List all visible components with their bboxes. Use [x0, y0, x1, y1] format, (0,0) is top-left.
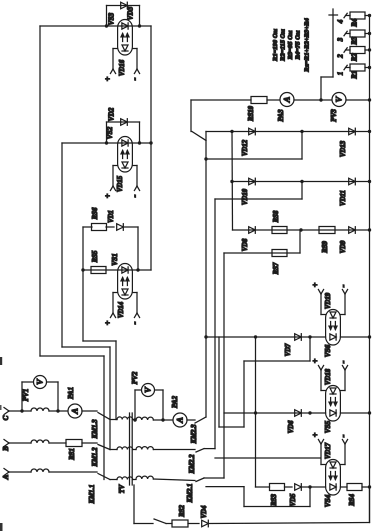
- svg-text:-: -: [338, 285, 348, 288]
- svg-text:TV: TV: [119, 484, 126, 493]
- svg-text:VD3: VD3: [127, 6, 135, 20]
- svg-text:PV1: PV1: [22, 389, 30, 402]
- svg-text:R2=115 Ом: R2=115 Ом: [280, 29, 287, 62]
- svg-text:-: -: [130, 322, 140, 325]
- svg-text:RS2: RS2: [179, 505, 186, 518]
- svg-text:+: +: [104, 320, 113, 325]
- svg-text:PA1: PA1: [67, 387, 75, 399]
- svg-text:3: 3: [337, 37, 345, 42]
- svg-text:RS1: RS1: [69, 448, 76, 461]
- svg-text:VD9: VD9: [340, 240, 347, 253]
- svg-text:+: +: [311, 358, 320, 363]
- svg-text:R4=75 Ом: R4=75 Ом: [295, 30, 302, 60]
- svg-text:RS6: RS6: [92, 207, 99, 220]
- svg-text:R2: R2: [350, 53, 358, 63]
- svg-text:KM2.1: KM2.1: [187, 483, 194, 503]
- svg-text:VS2: VS2: [106, 126, 114, 139]
- svg-text:PA2: PA2: [171, 395, 179, 408]
- svg-text:RS10: RS10: [248, 105, 255, 122]
- svg-text:VS4: VS4: [324, 494, 332, 507]
- svg-text:RS7: RS7: [273, 262, 280, 275]
- svg-text:A: A: [282, 96, 292, 103]
- svg-text:KM1.2: KM1.2: [92, 447, 99, 468]
- svg-text:VS6: VS6: [324, 344, 332, 357]
- svg-text:VS1: VS1: [111, 253, 119, 265]
- svg-text:VD10: VD10: [242, 188, 249, 205]
- svg-text:RS5: RS5: [92, 250, 99, 263]
- svg-text:A: A: [70, 408, 80, 415]
- svg-text:VD1: VD1: [108, 210, 115, 223]
- svg-text:VD5: VD5: [290, 493, 297, 506]
- svg-text:KM1.1: KM1.1: [89, 484, 96, 504]
- svg-text:PV3: PV3: [330, 109, 338, 122]
- svg-text:VD11: VD11: [340, 190, 347, 206]
- svg-text:VS3: VS3: [108, 12, 116, 25]
- svg-text:A: A: [175, 417, 185, 424]
- svg-text:+: +: [104, 76, 113, 81]
- svg-text:R4: R4: [350, 18, 358, 28]
- svg-text:R1: R1: [350, 71, 358, 80]
- svg-text:VD18: VD18: [325, 368, 332, 385]
- svg-text:-: -: [130, 78, 140, 81]
- svg-text:RS4: RS4: [349, 494, 356, 507]
- svg-text:R1=190 Ом: R1=190 Ом: [272, 28, 279, 62]
- svg-text:4: 4: [337, 19, 345, 24]
- svg-text:-: -: [338, 435, 348, 438]
- svg-text:-: -: [130, 195, 140, 198]
- svg-text:+: +: [104, 193, 113, 198]
- svg-text:VD6: VD6: [288, 420, 295, 433]
- svg-text:B: B: [2, 446, 10, 452]
- svg-text:VD16: VD16: [119, 59, 126, 76]
- svg-text:A: A: [2, 474, 10, 480]
- svg-text:R3: R3: [350, 36, 358, 46]
- svg-text:2: 2: [337, 54, 345, 59]
- svg-text:VD12: VD12: [242, 139, 249, 156]
- svg-text:RS8: RS8: [273, 210, 280, 223]
- svg-text:KM1.3: KM1.3: [92, 419, 99, 440]
- svg-text:+: +: [311, 432, 320, 437]
- svg-text:C: C: [2, 415, 10, 420]
- svg-text:RS9: RS9: [322, 241, 329, 254]
- svg-text:VD4: VD4: [201, 505, 208, 518]
- svg-text:KM2.2: KM2.2: [189, 454, 196, 475]
- svg-text:VD14: VD14: [118, 301, 125, 318]
- svg-text:VS5: VS5: [324, 420, 332, 433]
- svg-text:VD13: VD13: [340, 140, 347, 157]
- svg-text:R3=95 Ом: R3=95 Ом: [287, 30, 294, 60]
- svg-text:PA3: PA3: [277, 109, 285, 122]
- svg-text:VD7: VD7: [285, 343, 292, 356]
- svg-text:PV2: PV2: [131, 371, 139, 384]
- svg-text:VD15: VD15: [117, 175, 124, 192]
- svg-text:1: 1: [337, 72, 345, 76]
- svg-text:Rя=R1+R2+R3+R4: Rя=R1+R2+R3+R4: [304, 17, 311, 72]
- svg-text:VD19: VD19: [325, 292, 332, 309]
- svg-text:VD8: VD8: [242, 238, 249, 251]
- svg-text:RS3: RS3: [271, 494, 278, 507]
- svg-text:VD2: VD2: [108, 107, 116, 121]
- svg-text:KM2.3: KM2.3: [191, 424, 198, 445]
- svg-text:-: -: [338, 361, 348, 364]
- svg-text:+: +: [311, 282, 320, 287]
- svg-text:VD17: VD17: [325, 442, 332, 459]
